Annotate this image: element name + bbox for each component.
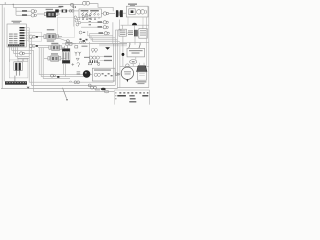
hook wires into U5: [129, 43, 140, 49]
connector C18: [115, 73, 120, 75]
ignition switch pins: [82, 17, 99, 20]
label DB: [59, 6, 64, 7]
connector C6: [20, 52, 23, 55]
wire K5 to motor box: [123, 12, 126, 14]
splice marks center: [72, 63, 75, 66]
inline resistor R1: [62, 43, 76, 45]
relay K1 left pin: [44, 13, 46, 16]
harness vertical: [73, 4, 75, 27]
fan motor M2 dark: [83, 70, 91, 78]
module box U5: [127, 48, 145, 57]
left bus verticals: [28, 28, 30, 82]
switch assembly box SW2: [92, 68, 115, 81]
diode block D2: [23, 58, 27, 61]
wire right link: [112, 22, 114, 43]
relay K1 label: [46, 9, 53, 10]
wire switch to C5: [101, 13, 115, 15]
connector C20: [79, 31, 82, 34]
node tick: [4, 2, 6, 4]
wire top bus: [0, 4, 83, 6]
relay K3 label: [51, 43, 58, 44]
label wire2: [22, 14, 27, 15]
ECU text rows: [9, 34, 18, 44]
wire drop from U5: [133, 57, 136, 67]
label wire3: [98, 21, 103, 22]
connector bundle circles: [74, 14, 88, 26]
connector C9: [51, 74, 54, 77]
sensor symbol S1: [75, 46, 78, 48]
wire left bus B: [3, 8, 5, 82]
wire to connector C2: [16, 14, 31, 16]
center big box faint: [57, 17, 74, 37]
battery junction circles: [83, 1, 87, 5]
starter assembly box U2: [126, 6, 148, 17]
connector C12: [103, 26, 106, 29]
relay K3 left pin: [49, 46, 51, 49]
fuse block pins: [16, 70, 19, 75]
ground strip dark bar: [5, 81, 27, 84]
wire top bus right segment: [89, 4, 113, 12]
capacitor dark bars: [134, 30, 136, 37]
starter label: [128, 4, 137, 5]
wire row y11: [59, 10, 79, 12]
fusible link F1: [55, 9, 59, 12]
wire relay K3 row: [38, 45, 64, 47]
connector C1: [31, 10, 34, 13]
label sensor: [104, 60, 112, 61]
splice mound dark: [132, 23, 137, 25]
wire right low rail: [120, 65, 149, 67]
canister solenoid body: [62, 49, 70, 64]
fuel pump P1 top: [137, 66, 147, 72]
connector C2: [31, 14, 34, 17]
nested harness corners: [88, 31, 113, 36]
ECU label: [12, 21, 22, 22]
label injector: [104, 56, 112, 57]
connector C7: [29, 35, 33, 39]
junction cluster dark: [80, 39, 82, 41]
label wire4: [98, 26, 103, 27]
wire diagonal slash: [63, 88, 67, 99]
diode Y symbol: [75, 52, 78, 56]
relay K2 left pin: [44, 35, 46, 39]
wire right top rail: [121, 24, 149, 26]
small part above P1: [88, 63, 91, 65]
wire left bus A: [1, 5, 3, 89]
fuel pump body: [138, 72, 147, 80]
ECU box U1: [7, 24, 26, 47]
relay K2 body: [47, 34, 56, 40]
wire y74: [39, 74, 92, 76]
sensor pair S3: [91, 48, 94, 51]
wire to connector C1: [16, 10, 31, 12]
splice dark: [57, 76, 59, 78]
SW2 contacts: [94, 73, 97, 76]
node junction: [13, 4, 14, 5]
relay K4 left pin: [48, 57, 50, 60]
fan ripple marks: [77, 72, 81, 75]
connector group box: [28, 32, 41, 41]
wire y76: [41, 76, 86, 78]
diagonal wire: [58, 38, 75, 44]
wire y78: [43, 78, 70, 80]
relay K4 body: [51, 56, 59, 61]
wire drops right: [122, 25, 143, 30]
ignition switch label: [81, 10, 89, 11]
fuse block F3: [14, 62, 23, 71]
relay K1 body: [47, 12, 56, 17]
wire to ground strip: [14, 76, 16, 82]
relay K2 right pin: [56, 35, 58, 39]
ground G1: [105, 47, 110, 50]
text block: [128, 30, 133, 31]
label S1: [82, 46, 88, 47]
connector C13: [104, 32, 107, 35]
diode triangle: [76, 58, 79, 60]
canister purge valve pins: [65, 46, 68, 49]
relay K4 label: [51, 53, 58, 54]
fuse holder enclosure: [9, 60, 28, 78]
indicator lamp L1: [126, 64, 129, 67]
bottom bus lines: [29, 81, 113, 83]
label wire1: [22, 10, 27, 11]
legend row 3: [130, 98, 136, 99]
connector C14 pair: [74, 81, 77, 84]
wire bottom left: [1, 88, 117, 90]
ECU pins: [20, 27, 25, 44]
relay K1 right pin: [56, 13, 58, 16]
injector symbols: [89, 56, 92, 59]
wire relay K1 row: [37, 13, 60, 15]
connector C11: [103, 21, 106, 24]
connector C5: [103, 12, 106, 15]
label wire5: [99, 32, 104, 33]
module box U3: [119, 29, 126, 36]
wire right mid rail: [120, 42, 149, 44]
label leader lines: [100, 56, 105, 60]
module box U4: [139, 29, 147, 39]
ECU pin row wires: [25, 28, 30, 41]
relay K3 body: [52, 45, 60, 50]
label tiny: [95, 89, 100, 90]
connector C8: [29, 44, 33, 48]
wire feed bus 2: [13, 7, 61, 9]
wire drop x16: [15, 8, 17, 16]
relay K4 right pin: [59, 57, 61, 60]
relay K2 label: [47, 29, 54, 30]
legend frame: [115, 90, 150, 105]
connector C3: [69, 10, 71, 12]
ignition switch SW1 box: [79, 9, 101, 17]
splice dot dark: [122, 53, 125, 56]
solenoid inside U2: [129, 9, 135, 15]
legend left ticks: [115, 92, 116, 93]
relay K5 contacts dark: [116, 10, 118, 17]
bus corner bumps: [69, 81, 71, 82]
injector hatch: [90, 60, 97, 63]
wires between: [126, 32, 138, 34]
wire drop motor to rail: [128, 17, 143, 25]
pump feed wires: [140, 63, 145, 66]
small part above P2: [98, 63, 100, 65]
oval connector C19: [130, 60, 137, 64]
wire y56: [16, 55, 30, 57]
motor M1 circles: [137, 10, 141, 14]
wire drops to relay box: [123, 36, 135, 53]
wire y50: [12, 49, 34, 51]
legend row 2: [117, 95, 126, 96]
relay K3 right pin: [60, 46, 62, 49]
wire to C13: [90, 32, 104, 34]
legend row 4: [129, 101, 136, 102]
ECU bottom pin strip: [8, 44, 25, 46]
wire bottom right rail: [117, 87, 149, 89]
connector C15: [88, 84, 91, 87]
wire y58: [18, 58, 30, 60]
inline fuse F2: [62, 10, 67, 13]
wire vertical x89: [89, 42, 91, 64]
wire drop from bus: [12, 5, 14, 8]
ignition switch contacts: [82, 12, 99, 15]
connector C4 on top bus: [71, 3, 74, 6]
wire to C12: [81, 26, 103, 28]
fuel pump label: [136, 81, 147, 82]
splice dark oval: [101, 88, 106, 91]
harness comb: [66, 43, 127, 45]
canister bottom wires: [64, 63, 66, 76]
relay K2 label below: [47, 40, 54, 41]
wire relay K2 row: [38, 36, 62, 38]
legend row 1: [119, 92, 148, 93]
SW2 label row: [94, 69, 111, 70]
wire relay K4 row: [44, 58, 66, 60]
wire below splice: [122, 56, 124, 66]
right edge bus: [148, 6, 150, 87]
diode block D1: [18, 58, 22, 61]
label S2: [84, 57, 90, 58]
bundle dark dashes: [89, 15, 91, 16]
harness tap marks: [73, 6, 74, 8]
mid verticals: [39, 48, 43, 79]
connector C16 pair: [91, 86, 94, 89]
connector oval C17: [104, 90, 108, 92]
wire y53 with connector C6: [14, 52, 32, 54]
ECU fanout verticals: [10, 47, 18, 62]
right bus verticals: [112, 44, 114, 83]
wire to C11: [81, 21, 103, 23]
connector C10 on diagonal: [66, 40, 69, 43]
ground arrow: [27, 87, 30, 89]
